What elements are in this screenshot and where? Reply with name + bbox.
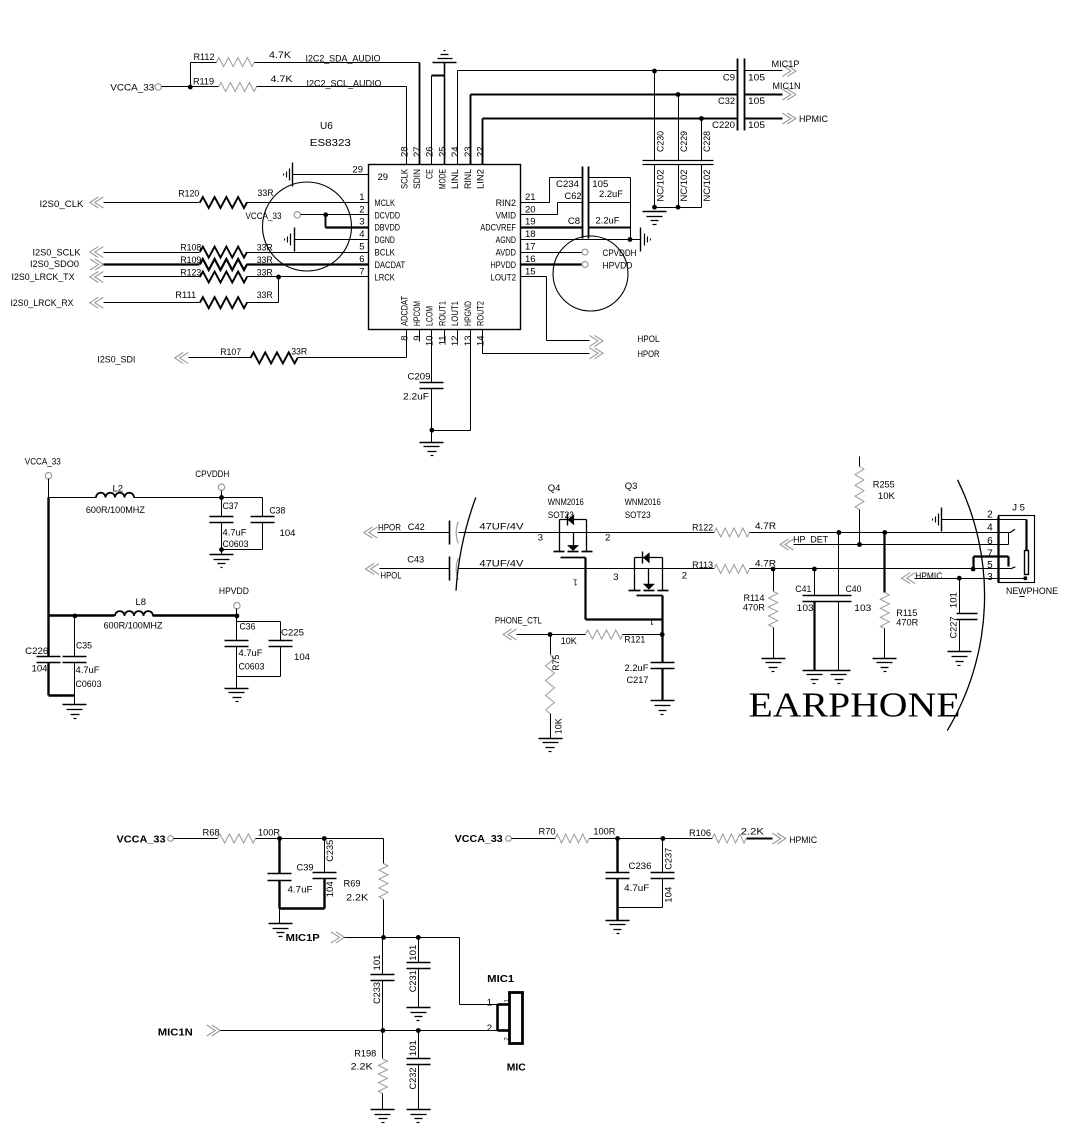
U6 bottom pin names and numbers 8-14 [399,296,486,346]
ground (C41) [803,671,827,684]
inductor L2 600R/100MHZ [49,484,222,516]
wire C236/C237 common [618,879,663,921]
svg-text:Q4: Q4 [548,483,561,494]
resistor R107 33R [220,346,307,363]
svg-text:1: 1 [359,192,364,203]
svg-text:R121: R121 [624,634,645,645]
node I2S0_SDI [97,352,250,365]
svg-text:7: 7 [987,549,993,560]
svg-text:103: 103 [797,603,814,614]
capacitor C41 103 [795,569,826,671]
capacitor C236 4.7uF [606,839,652,894]
transistor Q3 WNM2016 SOT23 [625,481,669,596]
svg-text:MIC1N: MIC1N [158,1027,193,1038]
capacitor C37 4.7uF C0603 [210,498,249,551]
svg-text:LRCK: LRCK [375,273,396,284]
svg-text:LOUT1: LOUT1 [450,301,461,326]
svg-text:20: 20 [525,204,536,215]
svg-text:105: 105 [748,73,765,84]
U6 left pin names and numbers 1-7 [359,192,405,284]
svg-text:4.7uF: 4.7uF [76,665,100,676]
svg-text:C230: C230 [655,131,666,152]
svg-text:ADCVREF: ADCVREF [480,223,516,234]
wire C226/C35 common to ground [49,696,75,705]
svg-text:7: 7 [359,267,364,278]
svg-text:ROUT2: ROUT2 [476,301,487,326]
wire R107 to pin 8 ADCDAT [298,330,407,358]
wire R112 to I2C2_SDA_AUDIO / pin 27 [191,63,420,165]
wire C234 right to node [589,178,631,240]
svg-text:2.2uF: 2.2uF [403,391,429,402]
transistor Q4 WNM2016 SOT23 [548,483,593,558]
svg-text:10K: 10K [553,718,564,735]
wire R123 to pin 7 LRCK [247,275,369,280]
capacitor C36 4.7uF C0603 [225,616,265,689]
ground (C227) [948,652,972,666]
wire pin21 RIN2 jog [521,178,583,203]
svg-text:LIN2: LIN2 [476,169,487,189]
svg-text:DBVDD: DBVDD [375,223,401,234]
capacitor C8 2.2uF label [568,216,620,228]
net CPVDDH (pin17 AVDD) [521,248,637,259]
svg-text:26: 26 [425,146,436,157]
svg-text:10: 10 [425,336,436,347]
capacitor C231 101 [407,938,431,1008]
svg-text:SCLK: SCLK [399,168,410,189]
svg-text:HPCOM: HPCOM [412,301,423,326]
svg-text:C217: C217 [627,675,649,686]
svg-text:C0603: C0603 [223,539,249,550]
wire C43 to Q3 pin3 [459,569,635,584]
wire R109 to pin 6 DACDAT [247,263,369,265]
wire R122 to J5 pin4 [750,530,1011,535]
net label I2C2_SCL_AUDIO [307,78,382,89]
svg-text:DACDAT: DACDAT [375,260,406,271]
svg-text:VMID: VMID [496,210,517,221]
svg-text:470R: 470R [896,618,918,629]
svg-text:R109: R109 [180,255,201,266]
svg-text:VCCA_33: VCCA_33 [110,83,154,94]
wire VCCA_33 to R119 and branch [162,63,219,90]
svg-text:Q3: Q3 [625,481,638,492]
svg-text:C0603: C0603 [239,661,265,672]
svg-text:33R: 33R [257,243,273,254]
svg-text:R108: R108 [180,243,201,254]
wire pin14 ROUT2 to HPOR [483,330,590,354]
svg-text:27: 27 [412,146,423,157]
svg-text:CE: CE [425,169,436,179]
svg-text:HPVDD: HPVDD [603,261,633,272]
capacitor C43 47UF/4V [407,555,524,581]
capacitor C229 NC/102 [676,92,690,207]
svg-text:4: 4 [359,229,364,240]
svg-text:LINL: LINL [450,169,461,189]
capacitor C38 104 [222,498,296,550]
resistor R108 33R [180,243,273,258]
wire pins 5-7 tie [974,557,1009,569]
svg-text:C231: C231 [408,970,419,992]
svg-text:C39: C39 [297,862,314,873]
svg-text:104: 104 [280,528,296,539]
svg-text:47UF/4V: 47UF/4V [479,521,524,532]
svg-text:RINL: RINL [463,169,474,189]
svg-text:18: 18 [525,229,536,240]
capacitor C9 105 [723,59,765,131]
U6 right pin names and numbers 21-15 [480,192,535,284]
resistor R113 4.7R [692,559,776,574]
wire R113 to J5 pin5 [750,567,1011,572]
svg-text:R106: R106 [689,828,711,839]
power terminal VCCA_33 (pins 2,3) [246,211,301,221]
svg-text:WNM2016: WNM2016 [548,497,584,508]
wire branch to pin 3 DBVDD [326,215,369,228]
svg-text:C232: C232 [408,1068,419,1090]
svg-text:2.2uF: 2.2uF [625,663,649,674]
svg-text:2: 2 [605,533,610,544]
svg-text:VCCA_33: VCCA_33 [25,457,61,468]
svg-text:R75: R75 [551,655,562,671]
svg-text:C233: C233 [372,982,383,1004]
J5 pin6 contact [1008,533,1010,545]
wire Q4 gate to Q3 gate rail [586,558,663,635]
svg-text:25: 25 [437,146,448,157]
node I2S0_LRCK_TX [12,272,200,284]
title EARPHONE [749,686,961,725]
node I2S0_CLK [40,197,200,210]
net CPVDDH terminal [195,469,229,500]
svg-text:104: 104 [664,887,675,903]
svg-text:104: 104 [325,881,336,897]
svg-text:C40: C40 [846,584,862,595]
svg-text:R111: R111 [175,290,196,301]
svg-text:4.7uF: 4.7uF [288,885,313,896]
ground (pins 25,26) [432,51,457,165]
svg-text:11: 11 [437,336,448,346]
wire NC caps common rail [652,205,701,210]
svg-text:4.7uF: 4.7uF [624,883,649,894]
svg-text:C38: C38 [269,506,285,517]
svg-text:MIC1: MIC1 [487,974,515,985]
resistor R255 10K [855,457,896,545]
svg-text:104: 104 [294,652,310,663]
svg-text:C225: C225 [281,627,304,638]
svg-text:C228: C228 [702,131,713,152]
ground (AGND) [641,228,651,252]
pin 11 stub [444,330,446,342]
svg-text:BCLK: BCLK [375,248,396,259]
svg-text:33R: 33R [258,188,274,199]
ground (C226/C35) [63,705,87,719]
svg-text:HPOR: HPOR [378,522,401,533]
svg-text:C9: C9 [723,73,735,84]
svg-text:C229: C229 [679,131,690,152]
capacitor C227 101 [948,579,977,652]
svg-text:AVDD: AVDD [496,248,516,259]
svg-text:5: 5 [359,242,364,253]
connector J5 body [999,503,1035,583]
svg-text:VCCA_33: VCCA_33 [455,834,504,845]
svg-text:4.7K: 4.7K [271,74,294,85]
node HPOL (out) [590,334,660,346]
wire R120 to pin 1 MCLK [247,202,369,204]
capacitor C39 4.7uF [268,839,314,896]
J5 pin numbers [987,510,993,584]
wire pin15 LOUT2 to HPOL [521,277,590,341]
wire VCCA_33 to R70 [512,838,556,840]
wire C42 to Q4 pin3 [459,533,560,544]
op-amp U6 ES8323 body [369,165,521,330]
svg-text:1: 1 [487,997,492,1008]
ground (pin 4 DGND) [285,228,369,252]
svg-text:6: 6 [987,536,993,547]
svg-text:1: 1 [573,578,578,587]
svg-text:NEWPHONE: NEWPHONE [1006,586,1058,597]
svg-text:NC/102: NC/102 [679,170,690,202]
svg-text:2: 2 [987,510,993,521]
svg-text:1: 1 [649,617,654,626]
U6 top pin names and numbers 28-22 [399,146,486,189]
svg-text:101: 101 [408,1040,419,1056]
svg-text:101: 101 [408,945,419,961]
svg-text:4.7K: 4.7K [269,50,292,61]
annotation arc (C42/C43) [456,497,476,590]
capacitor C235 104 [313,839,337,909]
wire pin18 AGND [521,237,641,242]
svg-text:24: 24 [450,146,461,157]
wire pin13 HPGND down [432,330,471,431]
svg-text:4.7uF: 4.7uF [239,648,263,659]
ground (NC caps) [643,212,667,225]
svg-text:CPVDDH: CPVDDH [603,248,637,259]
node HPMIC (top) [745,113,829,125]
capacitor C209 2.2uF [403,372,444,403]
wire pin19 ADCVREF [521,226,583,228]
ground (R115) [873,659,897,672]
wire J5 pin2 [942,520,1027,551]
svg-text:3: 3 [613,572,618,583]
resistor R198 2.2K [351,1031,388,1110]
Q3 pin2 wire to R113 [663,569,715,582]
svg-text:CPVDDH: CPVDDH [195,469,229,480]
capacitor C233 101 [371,938,395,1031]
capacitor C220 105 [712,120,765,131]
wire pin22 LIN2 to HPMIC line [483,119,738,165]
svg-text:2.2K: 2.2K [346,892,369,903]
svg-text:EARPHONE: EARPHONE [749,686,961,725]
svg-text:ADCDAT: ADCDAT [399,296,410,326]
wire C8 right [589,227,631,229]
node I2S0_SDO0 [30,259,200,270]
svg-text:14: 14 [476,336,487,347]
svg-text:C42: C42 [408,522,425,533]
node MIC1N [158,1023,498,1038]
svg-text:R70: R70 [539,826,556,837]
J5 pin5 contact [1010,567,1015,569]
svg-text:LCOM: LCOM [425,306,436,326]
svg-text:AGND: AGND [496,235,516,246]
ground (C37/C38) [210,555,234,568]
svg-text:R68: R68 [203,827,220,838]
ground (C236/C237) [606,921,630,934]
resistor R119 [193,74,293,92]
svg-text:2.2uF: 2.2uF [599,189,623,200]
svg-text:8: 8 [399,336,410,341]
power terminal VCCA_33 (filter) [25,457,61,479]
svg-text:C62: C62 [565,191,582,202]
U6 refdes [320,121,333,132]
svg-text:C0603: C0603 [76,679,102,690]
svg-text:600R/100MHZ: 600R/100MHZ [86,505,145,516]
node MIC1P [745,59,800,77]
net HPVDD terminal [219,586,249,618]
node PHONE_CTL [495,616,586,641]
svg-text:HPMIC: HPMIC [799,114,828,125]
node HP_DET [780,535,1009,551]
svg-text:2.2uF: 2.2uF [596,216,620,227]
wire pin20 VMID jog [521,203,583,215]
capacitor C226 104 [25,646,60,696]
svg-text:29: 29 [378,172,389,183]
svg-text:2.2K: 2.2K [351,1062,374,1073]
svg-text:101: 101 [948,592,959,608]
svg-text:NC/102: NC/102 [702,170,713,202]
svg-text:C235: C235 [325,840,336,862]
wire C39/C235 common [280,881,325,924]
svg-text:R69: R69 [344,878,361,889]
svg-text:I2S0_SDO0: I2S0_SDO0 [30,259,79,270]
svg-text:MCLK: MCLK [375,198,396,209]
svg-text:23: 23 [463,146,474,157]
svg-text:4: 4 [987,523,993,534]
capacitor C35 4.7uF C0603 [63,616,102,696]
svg-text:13: 13 [463,336,474,347]
svg-text:470R: 470R [743,603,765,614]
capacitor C234 105 [556,167,608,239]
svg-text:MODE: MODE [437,169,448,189]
svg-text:R119: R119 [193,77,214,88]
svg-text:L8: L8 [136,597,147,608]
svg-text:2: 2 [682,570,687,581]
svg-text:HPOR: HPOR [638,349,660,360]
svg-text:C236: C236 [629,861,652,872]
svg-text:C227: C227 [948,617,959,639]
node HPOL (in) [366,564,450,582]
node I2S0_LRCK_RX [11,297,200,309]
svg-text:SDIN: SDIN [412,169,423,189]
svg-text:15: 15 [525,267,536,278]
svg-text:C234: C234 [556,179,579,190]
svg-text:DCVDD: DCVDD [375,210,401,221]
node MIC1P [286,932,460,944]
annotation circle (left of U6) [263,182,352,271]
svg-text:33R: 33R [291,346,307,357]
svg-text:3: 3 [538,533,543,544]
resistor R112 [194,50,292,67]
svg-text:HPMIC: HPMIC [915,571,942,582]
svg-text:VCCA_33: VCCA_33 [117,835,167,846]
svg-text:100R: 100R [593,826,615,837]
annotation circle (right of U6) [553,236,628,311]
U6 value ES8323 [310,138,351,149]
resistor R120 33R [178,188,273,208]
node HPOR (out) [590,348,660,360]
svg-text:104: 104 [32,664,48,675]
svg-text:I2S0_SDI: I2S0_SDI [97,354,135,365]
svg-text:R112: R112 [194,52,215,63]
microphone MIC1 [487,974,526,1073]
svg-text:19: 19 [525,217,536,228]
svg-text:R255: R255 [873,480,895,491]
capacitor C62 2.2uF label [565,189,624,202]
svg-text:R198: R198 [354,1048,376,1059]
svg-text:101: 101 [372,955,383,971]
resistor R109 33R [180,255,273,270]
resistor R75 10K [546,635,565,739]
svg-text:PHONE_CTL: PHONE_CTL [495,616,542,627]
svg-text:ROUT1: ROUT1 [437,301,448,326]
svg-text:R123: R123 [180,268,201,279]
svg-text:10K: 10K [561,636,578,647]
resistor R68 100R [203,827,281,843]
svg-text:10K: 10K [878,491,896,502]
svg-text:VCCA_33: VCCA_33 [246,211,282,221]
svg-text:MIC1P: MIC1P [286,933,321,944]
svg-text:C8: C8 [568,216,580,227]
svg-text:22: 22 [476,146,487,157]
svg-text:R120: R120 [178,189,199,200]
svg-text:HPOL: HPOL [381,570,402,581]
capacitor C237 104 [651,839,675,908]
power terminal VCCA_33 (top-left) [110,83,161,94]
wire pin24 LINL to MIC1P line [458,71,738,165]
ground (C39/C235) [269,924,293,937]
svg-text:ES8323: ES8323 [310,138,351,149]
pin 9 stub [419,330,421,342]
net label I2C2_SDA_AUDIO [306,54,381,65]
svg-text:105: 105 [748,120,765,131]
wire pin10 LCOM down [431,330,433,383]
ground (R75) [539,739,563,752]
svg-text:9: 9 [412,336,423,341]
ground (J5 pin2) [933,508,942,532]
resistor R122 4.7R [692,521,776,537]
wire C37 to ground [219,523,224,555]
wire VCCA_33 to pin 2 DCVDD [301,212,369,217]
svg-text:NC/102: NC/102 [655,170,666,202]
svg-text:28: 28 [399,146,410,157]
J5 pin4 contact [1010,529,1015,532]
svg-text:I2C2_SCL_AUDIO: I2C2_SCL_AUDIO [307,78,382,89]
svg-text:HPGND: HPGND [463,301,474,326]
node HPOR (in) [364,522,450,538]
svg-text:I2S0_LRCK_TX: I2S0_LRCK_TX [12,272,76,283]
svg-text:R113: R113 [692,560,713,571]
J5 label NEWPHONE [1006,586,1058,597]
wire R119 to I2C2_SCL_AUDIO / pin 28 [257,87,407,165]
Q4 pin2 wire to R122 [587,533,715,544]
svg-text:105: 105 [748,96,765,107]
svg-text:33R: 33R [257,290,273,301]
capacitor C228 NC/102 [699,116,713,207]
svg-text:4.7R: 4.7R [755,521,776,532]
svg-text:2: 2 [359,204,364,215]
svg-text:100R: 100R [258,827,280,838]
svg-text:HPVDD: HPVDD [491,260,517,271]
svg-text:C41: C41 [795,584,811,595]
wire C62 right [589,202,631,204]
svg-text:MIC: MIC [507,1062,526,1073]
svg-text:I2C2_SDA_AUDIO: I2C2_SDA_AUDIO [306,54,381,65]
